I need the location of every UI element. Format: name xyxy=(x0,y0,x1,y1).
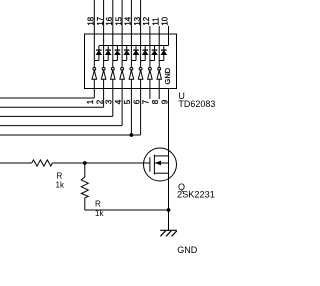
channel 8 internal line xyxy=(158,34,160,89)
ground symbol xyxy=(160,230,177,236)
diode common rail to pin 10 xyxy=(99,45,169,47)
channel 2 internal line xyxy=(103,34,105,89)
channel 4 internal line xyxy=(121,34,123,89)
buffer channel 5 xyxy=(129,67,134,79)
pin 10 internal line to diode common rail xyxy=(168,34,170,46)
pin 11 stub xyxy=(158,26,160,34)
buffer channel 3 xyxy=(111,67,116,79)
wire pin 5 down to junction xyxy=(130,89,132,136)
wire pin 15 to top edge xyxy=(121,0,123,34)
wire pin 2 to left edge xyxy=(103,89,105,108)
pin 10 stub xyxy=(168,26,170,34)
wire pin 17 to top edge xyxy=(103,0,105,34)
channel 5 internal line xyxy=(130,34,132,89)
wire pin 3 to left edge xyxy=(112,89,114,117)
svg-text:1k: 1k xyxy=(95,209,104,218)
channel 7 internal line xyxy=(149,34,151,89)
svg-text:10: 10 xyxy=(161,16,170,25)
junction gate node xyxy=(83,161,87,165)
buffer channel 8 xyxy=(157,67,162,79)
svg-text:16: 16 xyxy=(105,17,114,26)
wire pin 9 to MOSFET drain and ground xyxy=(168,89,170,231)
svg-text:17: 17 xyxy=(96,17,105,26)
wire pin 16 to top edge xyxy=(112,0,114,34)
svg-text:GND: GND xyxy=(177,245,198,255)
wire R2 to source node xyxy=(84,198,86,210)
svg-text:8: 8 xyxy=(151,99,160,104)
diode D2 channel 2 xyxy=(104,46,111,61)
channel 1 internal line xyxy=(93,34,95,89)
pin 8 stub xyxy=(158,89,160,100)
wire pin 13 to top edge xyxy=(140,0,142,34)
transistor Q1 2SK2231 xyxy=(144,148,177,181)
resistor R1 1k horizontal xyxy=(32,160,53,166)
svg-text:9: 9 xyxy=(160,99,169,104)
junction source node xyxy=(167,208,171,212)
channel 3 internal line xyxy=(112,34,114,89)
svg-text:11: 11 xyxy=(151,18,160,26)
wire pin 14 to top edge xyxy=(130,0,132,34)
svg-text:2SK2231: 2SK2231 xyxy=(177,190,215,200)
channel 6 internal line xyxy=(140,34,142,89)
svg-text:R: R xyxy=(95,200,101,209)
pin 12 stub xyxy=(149,26,151,34)
svg-text:1k: 1k xyxy=(56,181,65,190)
svg-text:13: 13 xyxy=(133,17,142,26)
buffer channel 4 xyxy=(120,67,125,79)
diode D7 channel 7 xyxy=(150,46,157,61)
svg-text:12: 12 xyxy=(142,17,151,26)
svg-text:18: 18 xyxy=(87,17,96,26)
resistor R2 1k vertical xyxy=(81,177,88,198)
buffer channel 6 xyxy=(138,67,143,79)
svg-text:14: 14 xyxy=(124,16,133,25)
wire left edge to resistor R1 xyxy=(0,162,32,164)
svg-text:GND: GND xyxy=(163,67,172,84)
diode D5 channel 5 xyxy=(131,46,138,61)
diode D4 channel 4 xyxy=(122,46,129,61)
svg-text:TD62083: TD62083 xyxy=(178,99,215,109)
svg-text:7: 7 xyxy=(142,99,151,104)
wire gate node to R2 xyxy=(84,163,86,177)
wire pin 4 to left edge xyxy=(121,89,123,126)
diode D6 channel 6 xyxy=(141,46,148,61)
buffer channel 1 xyxy=(92,67,97,79)
svg-text:15: 15 xyxy=(114,16,123,25)
wire pin 1 to left edge xyxy=(93,89,95,99)
svg-text:R: R xyxy=(57,172,63,181)
svg-text:5: 5 xyxy=(123,99,132,104)
diode D3 channel 3 xyxy=(113,46,120,61)
buffer channel 7 xyxy=(148,67,153,79)
wire R1 to MOSFET gate xyxy=(52,162,149,164)
diode D1 channel 1 xyxy=(94,46,101,61)
wire pin 6 to left edge xyxy=(140,89,142,136)
diode D8 channel 8 xyxy=(159,46,166,61)
svg-text:4: 4 xyxy=(114,99,123,104)
junction pins 5-6 xyxy=(130,133,134,137)
pin 7 stub xyxy=(149,89,151,100)
wire pin 18 to top edge xyxy=(93,0,95,34)
svg-text:3: 3 xyxy=(105,99,114,104)
chip U1 body TD62083 xyxy=(85,34,177,89)
buffer channel 2 xyxy=(101,67,106,79)
svg-text:1: 1 xyxy=(86,99,95,104)
svg-text:6: 6 xyxy=(132,99,141,104)
svg-text:2: 2 xyxy=(95,99,104,104)
